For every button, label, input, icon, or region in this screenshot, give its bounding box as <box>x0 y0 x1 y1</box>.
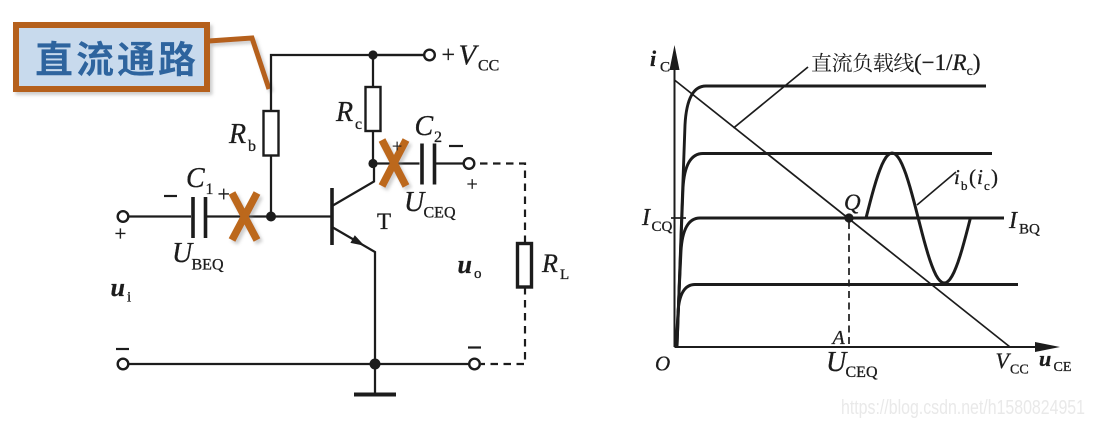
svg-text:https://blog.csdn.net/h1580824: https://blog.csdn.net/h1580824951 <box>841 397 1085 419</box>
wire C2 to output terminal <box>435 162 464 164</box>
svg-text:I: I <box>1008 208 1018 234</box>
svg-text:BEQ: BEQ <box>192 257 224 274</box>
wire input to C1 <box>129 215 192 217</box>
transistor T emitter lead <box>332 227 375 364</box>
label uo minus <box>468 346 481 348</box>
svg-text:O: O <box>655 352 670 376</box>
load line label leader <box>734 67 809 128</box>
svg-text:CQ: CQ <box>652 219 673 235</box>
ground stem <box>374 364 376 393</box>
svg-text:C: C <box>660 60 670 76</box>
svg-text:BQ: BQ <box>1019 222 1040 238</box>
svg-text:o: o <box>474 266 482 282</box>
svg-text:Q: Q <box>844 190 861 215</box>
dashed wire output top <box>480 164 525 244</box>
transistor T base bar <box>330 188 334 245</box>
characteristic curve ib2 <box>677 154 992 348</box>
node emitter-ground junction <box>370 359 381 370</box>
svg-text:CC: CC <box>478 58 499 75</box>
svg-text:R: R <box>541 249 558 278</box>
y axis <box>674 58 676 347</box>
capacitor C1 plates <box>193 197 206 238</box>
node base junction <box>266 212 276 222</box>
svg-text:c: c <box>355 116 362 133</box>
x axis <box>675 346 1039 348</box>
node top junction <box>368 50 377 59</box>
svg-text:C: C <box>186 163 205 194</box>
svg-text:i: i <box>954 165 960 189</box>
characteristic curve ib1 <box>677 86 986 347</box>
svg-text:R: R <box>335 97 353 128</box>
terminal +VCC <box>424 50 435 61</box>
characteristic curve ib3 IBQ <box>677 218 1005 347</box>
svg-text:CEQ: CEQ <box>846 364 878 381</box>
svg-text:C: C <box>415 111 434 142</box>
label C1 minus <box>164 195 177 197</box>
label C2 minus <box>449 145 463 147</box>
dashed line Q to UCEQ <box>848 222 850 347</box>
svg-text:A: A <box>831 327 846 349</box>
characteristic curve ib4 <box>676 285 1018 348</box>
svg-text:+: + <box>115 222 127 246</box>
svg-text:L: L <box>560 267 569 283</box>
wire collector node to C2 <box>373 162 420 164</box>
wire VCC top rail <box>271 55 424 111</box>
svg-text:+: + <box>442 43 456 69</box>
svg-text:R: R <box>228 119 246 150</box>
wire Rb to base node <box>270 156 272 217</box>
Q point <box>844 213 853 222</box>
svg-text:1: 1 <box>206 181 214 198</box>
svg-text:+: + <box>467 174 478 196</box>
dashed wire output bottom <box>481 287 525 364</box>
transistor T collector lead <box>332 164 374 207</box>
terminal uo+ <box>464 158 475 169</box>
svg-text:i: i <box>977 165 983 189</box>
svg-text:2: 2 <box>434 129 442 146</box>
sine wave ib(ic) <box>866 153 970 283</box>
svg-text:(: ( <box>969 165 976 189</box>
resistor Rc top wire <box>372 55 374 87</box>
wire top to VCC terminal <box>373 54 424 56</box>
svg-text:b: b <box>961 178 968 193</box>
terminal ui- <box>118 359 129 370</box>
ib(ic) label leader <box>917 172 956 205</box>
DC load line <box>675 80 1011 347</box>
svg-text:i: i <box>127 290 131 306</box>
resistor RL body <box>518 244 532 288</box>
svg-text:T: T <box>377 209 391 234</box>
node collector junction <box>368 159 377 168</box>
wire bottom rail <box>129 363 470 365</box>
y axis arrow <box>670 45 680 70</box>
capacitor C2 plates <box>422 144 435 185</box>
transistor T emitter arrow <box>350 235 364 246</box>
svg-text:c: c <box>984 178 990 193</box>
label 直流负载线(-1/Rc) <box>812 53 914 73</box>
terminal ui+ <box>118 211 129 222</box>
callout leader <box>209 38 269 89</box>
svg-text:I: I <box>641 205 651 231</box>
X mark over C1 (shorted for DC path) <box>232 193 257 240</box>
callout box 直流通路 <box>16 25 207 89</box>
resistor Rb body <box>264 111 279 156</box>
x axis arrow <box>1035 342 1060 352</box>
label ui minus <box>116 348 129 350</box>
ground bar <box>354 393 396 397</box>
svg-text:b: b <box>248 138 256 155</box>
svg-text:CEQ: CEQ <box>424 205 456 222</box>
svg-text:+: + <box>218 182 230 207</box>
svg-text:CE: CE <box>1054 360 1072 375</box>
resistor Rc body <box>366 87 381 131</box>
svg-text:i: i <box>650 46 657 71</box>
X mark over C2 (shorted for DC path) <box>382 140 406 186</box>
svg-text:u: u <box>458 250 472 279</box>
svg-text:): ) <box>991 165 998 189</box>
wire C1 to base <box>206 215 333 217</box>
terminal uo- <box>469 359 480 370</box>
callout text 直流通路 <box>37 41 196 77</box>
svg-text:u: u <box>1039 346 1051 371</box>
wire Rc to collector node <box>372 131 374 164</box>
ICQ tick <box>671 217 686 219</box>
svg-text:+: + <box>392 136 402 156</box>
svg-text:CC: CC <box>1010 363 1029 378</box>
svg-text:u: u <box>111 273 125 302</box>
